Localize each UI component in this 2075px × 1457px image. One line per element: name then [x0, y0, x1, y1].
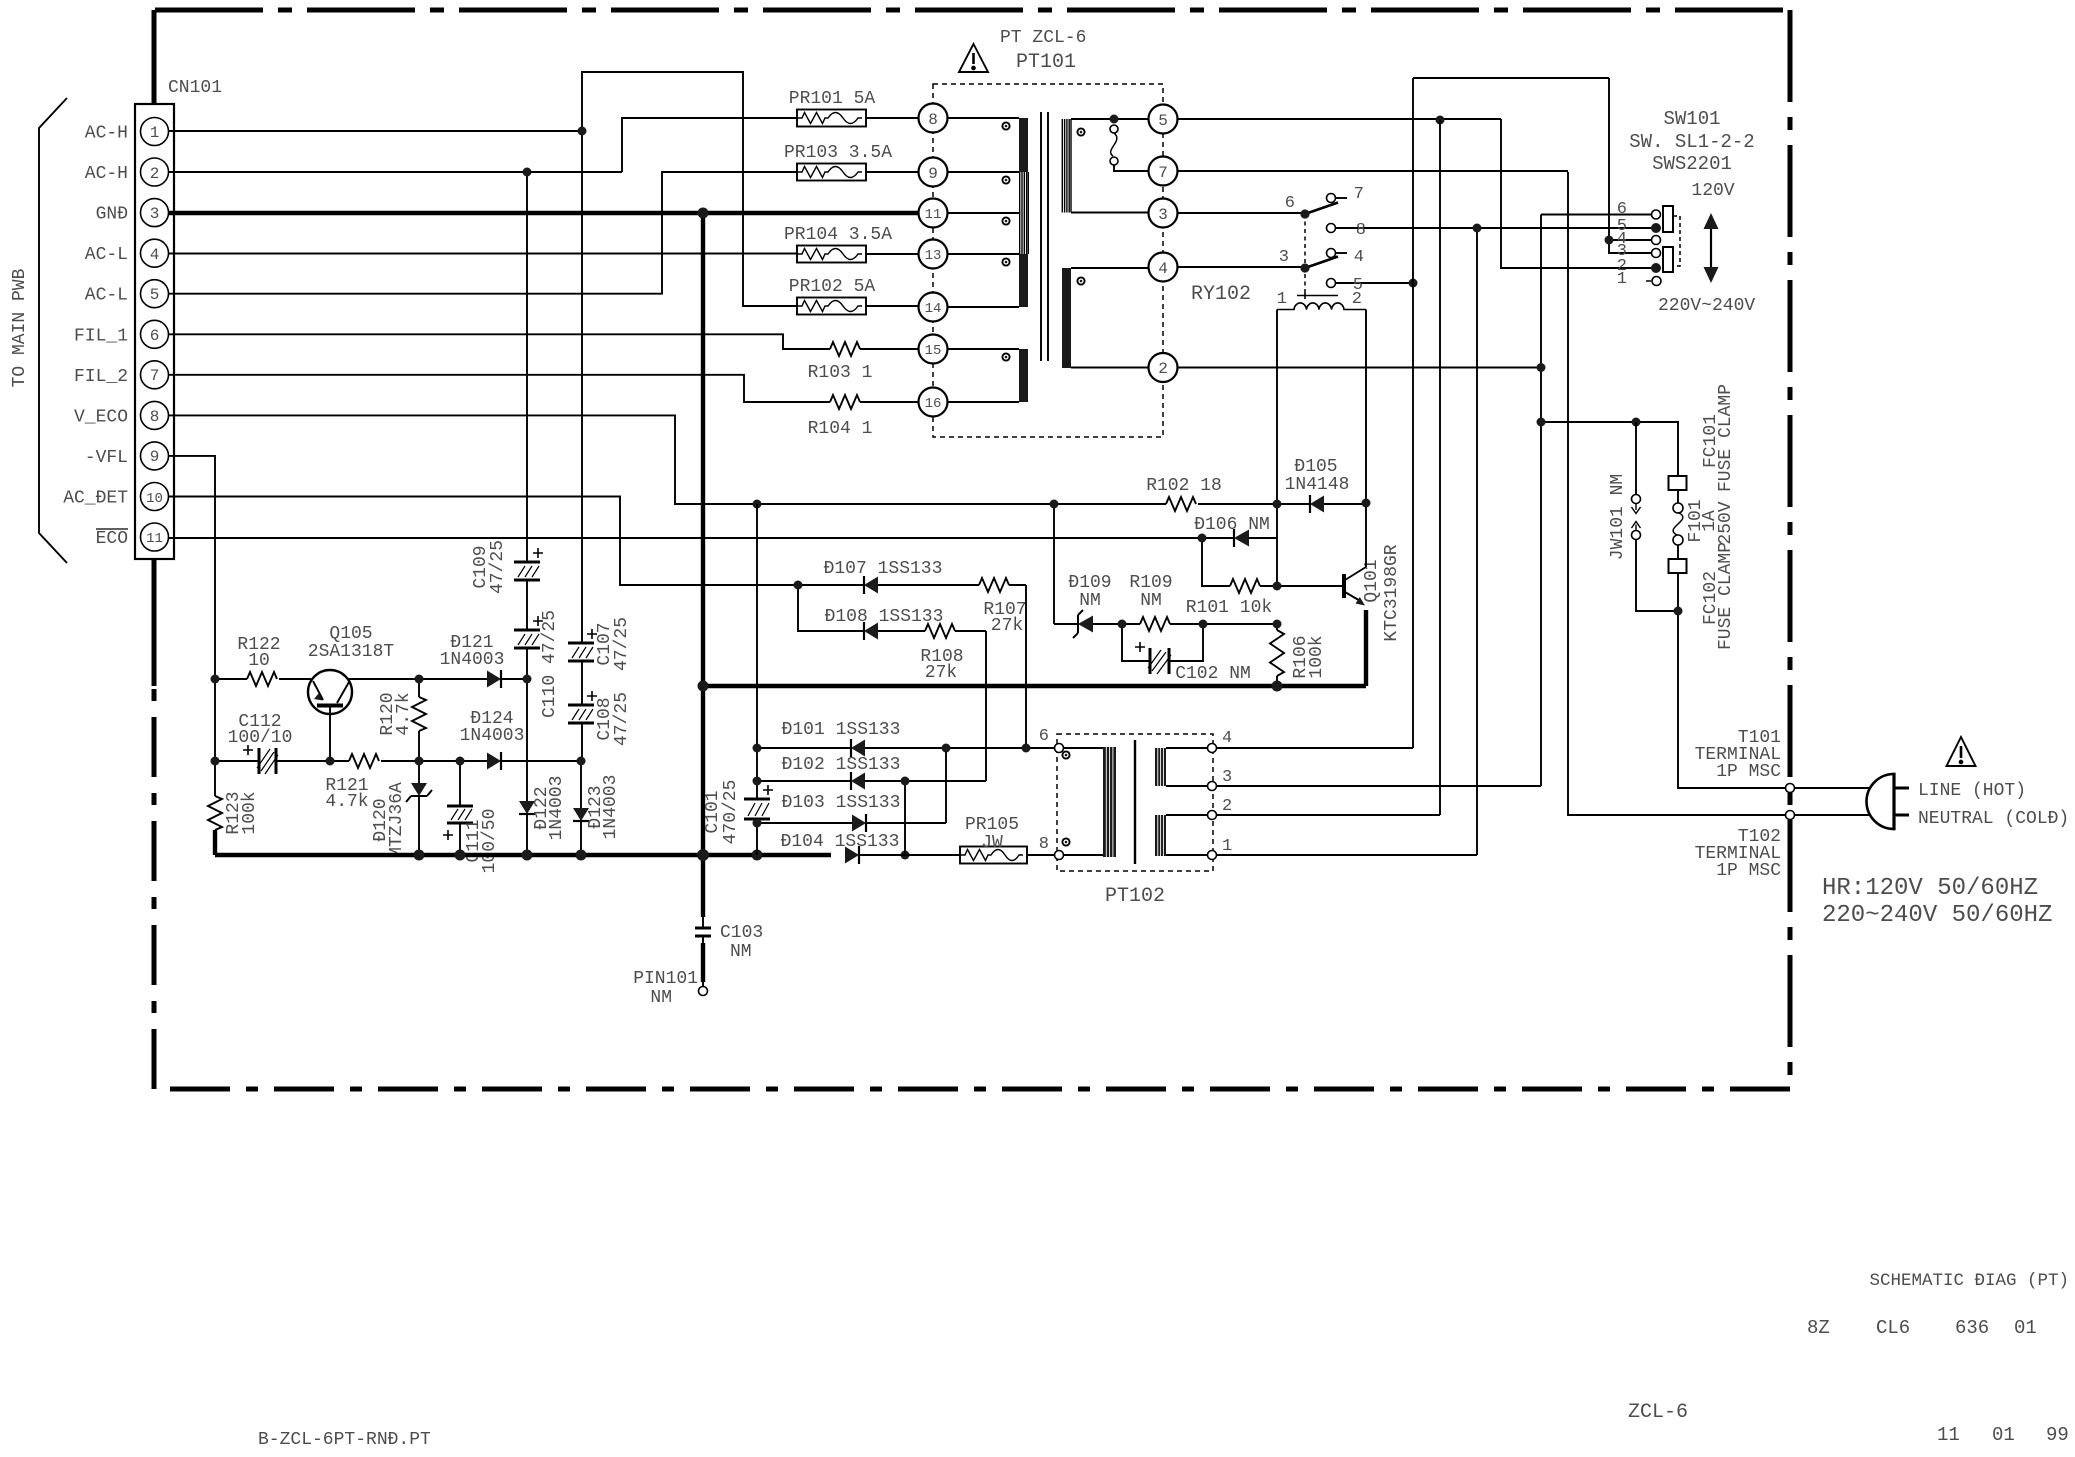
diode D103	[757, 814, 946, 832]
wire D102 to D104 link	[904, 781, 906, 855]
svg-text:PR102 5A: PR102 5A	[789, 277, 876, 297]
svg-text:6: 6	[1285, 194, 1295, 213]
svg-text:5: 5	[150, 286, 160, 304]
transformer PT102 core	[1134, 740, 1136, 864]
wire D101 to D103 link	[945, 748, 947, 823]
svg-text:R109: R109	[1129, 573, 1172, 593]
svg-text:5: 5	[1158, 112, 1168, 130]
transformer PT101 pin 4	[1149, 253, 1178, 282]
wire relay coil right to D105 cathode node	[1365, 310, 1367, 504]
svg-text:47/25: 47/25	[612, 617, 632, 671]
svg-text:9: 9	[928, 165, 938, 183]
transformer PT101 secondary winding upper hatched	[1062, 119, 1148, 213]
svg-text:FIL_2: FIL_2	[74, 367, 128, 387]
junction dot F101 bottom	[1674, 607, 1683, 616]
connector CN101 pin 1	[141, 118, 169, 146]
switch SW101 pin 2	[1651, 263, 1661, 273]
svg-text:7: 7	[1354, 185, 1364, 204]
fuse clamp FC101	[1669, 476, 1687, 490]
connector CN101 pin 7	[141, 361, 169, 389]
svg-text:Đ107 1SS133: Đ107 1SS133	[824, 559, 943, 579]
svg-text:7: 7	[150, 367, 160, 385]
svg-text:2: 2	[150, 165, 160, 183]
transformer PT102 pin 2	[1208, 797, 1441, 820]
junction dots SW net	[1473, 224, 1614, 373]
connector CN101 pin 6	[141, 320, 169, 348]
wire Q101 base	[1277, 585, 1343, 587]
svg-text:CL6: CL6	[1876, 1317, 1910, 1339]
warning triangle plug	[1947, 737, 1976, 766]
relay RY102 contact 5 wire	[1327, 279, 1414, 288]
switch SW101 contact block 1	[1663, 206, 1673, 232]
svg-text:NM: NM	[650, 988, 672, 1008]
transformer PT102 dashed box	[1057, 734, 1213, 871]
transformer PT102 pin 6	[1039, 727, 1064, 753]
transformer PT102 primary wires	[1064, 748, 1104, 855]
svg-text:7: 7	[1158, 164, 1168, 182]
resistor R103	[830, 342, 860, 356]
svg-text:JW101 NM: JW101 NM	[1608, 474, 1628, 560]
svg-text:3: 3	[1279, 248, 1289, 267]
transformer PT101 secondary winding lower	[1062, 268, 1149, 368]
svg-text:1N4003: 1N4003	[601, 775, 621, 840]
junction dots diode matrix	[753, 744, 1031, 828]
wire T102 to plug	[1795, 814, 1871, 816]
resistor R104	[830, 395, 860, 409]
svg-text:11: 11	[925, 207, 942, 223]
svg-text:6: 6	[150, 327, 160, 345]
svg-text:C110 47/25: C110 47/25	[540, 610, 560, 718]
transformer PT102 secondary winding upper	[1155, 748, 1208, 786]
svg-text:15: 15	[925, 343, 942, 359]
switch SW101 selector arrow	[1704, 213, 1719, 283]
svg-text:220~240V 50/60HZ: 220~240V 50/60HZ	[1822, 902, 2052, 929]
border frame bottom	[155, 1087, 1790, 1092]
diode D105	[1277, 495, 1366, 513]
capacitor C110	[514, 616, 543, 648]
svg-text:LINE (HOT): LINE (HOT)	[1918, 781, 2026, 801]
svg-text:Đ105: Đ105	[1294, 457, 1337, 477]
svg-text:PIN101: PIN101	[633, 969, 698, 989]
capacitor C108	[568, 691, 597, 723]
svg-text:AC-H: AC-H	[85, 164, 128, 184]
svg-text:NM: NM	[1079, 591, 1101, 611]
svg-text:AC-L: AC-L	[85, 286, 128, 306]
junction dots mid area	[698, 499, 1371, 692]
transformer PT102 pin 4	[1208, 729, 1414, 753]
transformer PT101 pin 15	[919, 335, 948, 364]
svg-text:Đ109: Đ109	[1068, 573, 1111, 593]
relay RY102 pole 2 arm	[1305, 257, 1338, 269]
wire D121 node down to D122	[526, 679, 528, 801]
svg-text:AC-L: AC-L	[85, 245, 128, 265]
diode D108	[798, 585, 925, 640]
svg-text:C101: C101	[703, 790, 723, 833]
transformer PT102 primary winding bars	[1103, 747, 1116, 857]
transformer PT102 pin 8	[1039, 835, 1064, 860]
wire PT101 pin5 to SW101 pin2	[1178, 119, 1652, 268]
junction dot D107 node	[794, 581, 803, 590]
svg-text:100/10: 100/10	[228, 728, 293, 748]
junction dots fuse line	[1537, 418, 1641, 427]
relay RY102 contact 7	[1327, 194, 1348, 203]
svg-text:100/50: 100/50	[480, 809, 500, 874]
svg-text:100k: 100k	[1307, 635, 1327, 678]
connector CN101 pin 8	[141, 401, 169, 429]
capacitor C103	[695, 917, 711, 987]
wire GND pin3 thick to PT101 pin11	[168, 211, 919, 215]
svg-text:PR104 3.5A: PR104 3.5A	[784, 225, 892, 245]
diode D101	[757, 739, 1054, 757]
transformer PT101 pin 8	[919, 104, 948, 133]
transistor Q101	[1344, 567, 1366, 606]
fusible resistor PR104	[797, 246, 919, 263]
wire C107 to C108	[581, 661, 583, 705]
transformer PT101 pin 9	[919, 158, 948, 187]
svg-text:1P MSC: 1P MSC	[1716, 762, 1781, 782]
wire PT101 pin2 to net SW6	[1178, 367, 1542, 369]
fusible resistor PR105	[960, 847, 1054, 864]
switch SW101 pin 1	[1646, 277, 1661, 286]
svg-text:10: 10	[248, 651, 270, 671]
switch SW101 slider dashed link	[1673, 216, 1680, 266]
svg-text:10: 10	[146, 491, 163, 507]
jumper JW101	[1632, 422, 1679, 611]
diode D107	[798, 576, 979, 594]
svg-text:AC_ĐET: AC_ĐET	[63, 489, 128, 509]
wire V_ECO pin8 to R102	[168, 415, 1277, 504]
svg-text:HR:120V 50/60HZ: HR:120V 50/60HZ	[1822, 875, 2038, 902]
capacitor C109	[514, 548, 543, 580]
diode D124	[419, 752, 581, 770]
wire FIL_2 pin7 to R104	[168, 375, 919, 402]
svg-text:PT ZCL-6: PT ZCL-6	[1000, 28, 1086, 48]
svg-text:2: 2	[1158, 360, 1168, 378]
connector CN101 pin 9	[141, 442, 169, 470]
wire AC_DET pin10 to D107 D108 node	[168, 497, 798, 586]
transformer PT102 pin 3	[1208, 768, 1542, 791]
wire V_ECO branch down C101 column	[756, 504, 758, 799]
svg-text:8: 8	[1039, 835, 1049, 854]
resistor R102	[1166, 497, 1196, 511]
wire T101 to plug	[1795, 787, 1871, 789]
wire ECO net vertical x1277	[1276, 504, 1278, 586]
svg-text:220V~240V: 220V~240V	[1658, 296, 1755, 316]
wire R107 to D101 row	[1025, 585, 1027, 748]
svg-text:R102 18: R102 18	[1146, 476, 1222, 496]
svg-text:11: 11	[1937, 1424, 1960, 1446]
svg-text:2: 2	[1222, 797, 1232, 816]
svg-text:8: 8	[928, 111, 938, 129]
wire C108 to D123	[581, 723, 582, 808]
svg-text:SW101: SW101	[1663, 108, 1720, 130]
wire fuse line from SW6 net	[1541, 422, 1678, 476]
svg-text:NM: NM	[730, 942, 752, 962]
transformer PT101 pin 5	[1149, 105, 1178, 134]
switch SW101 pin 5	[1651, 223, 1661, 233]
capacitor C102	[1122, 624, 1203, 674]
svg-text:Q105: Q105	[329, 624, 372, 644]
wire thick ground bus y855	[215, 853, 831, 857]
svg-text:16: 16	[925, 396, 942, 412]
svg-text:4: 4	[1158, 260, 1168, 278]
svg-text:100k: 100k	[240, 791, 260, 834]
svg-text:SW. SL1-2-2: SW. SL1-2-2	[1629, 131, 1754, 153]
junction dots left area	[523, 127, 709, 219]
svg-text:V_ECO: V_ECO	[74, 407, 128, 427]
relay RY102 contact 4	[1327, 249, 1348, 258]
capacitor C112	[215, 745, 330, 774]
wire AC-H pin2 to PR101 detour	[168, 118, 797, 172]
svg-text:4: 4	[1354, 248, 1364, 267]
svg-text:KTC3198GR: KTC3198GR	[1382, 544, 1402, 641]
svg-text:PR101 5A: PR101 5A	[789, 89, 876, 109]
fusible resistor PR103	[797, 164, 919, 181]
wire net x1440 vertical PT102 pin2	[1439, 120, 1441, 815]
wire net x1413 vertical PT102 pin4	[1412, 78, 1414, 748]
svg-text:6: 6	[1039, 727, 1049, 746]
border frame right	[1788, 10, 1793, 1089]
svg-text:8: 8	[150, 408, 160, 426]
diode D104	[845, 846, 960, 864]
svg-text:120V: 120V	[1691, 181, 1734, 201]
svg-text:1N4148: 1N4148	[1285, 475, 1350, 495]
relay RY102 pole 1 arm	[1305, 203, 1338, 215]
border frame left	[152, 10, 157, 1089]
pin PIN101	[699, 987, 708, 996]
resistor R108	[925, 624, 986, 638]
svg-text:1N4003: 1N4003	[440, 650, 505, 670]
wire Q101 emitter thick to bus	[1364, 610, 1368, 686]
wire AC-L pin4 to PR104	[168, 253, 797, 255]
wire GND trunk vertical thick	[701, 213, 705, 917]
svg-text:14: 14	[925, 301, 942, 317]
fusible resistor PR102	[797, 298, 919, 315]
svg-text:RY102: RY102	[1191, 283, 1251, 306]
svg-text:NM: NM	[1140, 591, 1162, 611]
junction dots Q105 area	[211, 675, 586, 766]
wire thick bus y686	[703, 684, 1366, 688]
svg-text:3: 3	[1222, 768, 1232, 787]
svg-text:ZCL-6: ZCL-6	[1628, 1401, 1688, 1424]
transformer PT101 core	[1041, 112, 1048, 361]
svg-text:ECO: ECO	[96, 529, 128, 549]
resistor R123	[208, 763, 222, 855]
svg-text:GNĐ: GNĐ	[96, 205, 128, 225]
svg-text:27k: 27k	[991, 616, 1023, 636]
svg-text:1N4003: 1N4003	[547, 776, 567, 841]
svg-text:SCHEMATIC ĐIAG (PT): SCHEMATIC ĐIAG (PT)	[1869, 1271, 2069, 1291]
AC plug	[1867, 773, 1910, 831]
fusible resistor PR101	[797, 110, 919, 127]
wire FIL_1 pin6 to R103	[168, 334, 919, 349]
wire net x1541 SW6 to PT102 pin3	[1541, 215, 1651, 787]
terminal T102	[1786, 811, 1795, 820]
svg-text:C102 NM: C102 NM	[1175, 664, 1251, 684]
svg-text:NEUTRAL (COLĐ): NEUTRAL (COLĐ)	[1918, 809, 2069, 829]
transformer PT101 primary winding bars	[1019, 118, 1028, 402]
svg-text:PR105: PR105	[965, 815, 1019, 835]
transformer PT101 pin 3	[1149, 199, 1178, 228]
svg-text:2SA1318T: 2SA1318T	[308, 642, 395, 662]
switch SW101 pin 4	[1613, 236, 1661, 245]
resistor R101	[1202, 538, 1277, 593]
transistor Q105	[308, 670, 419, 761]
connector CN101 pin 11	[141, 523, 169, 551]
svg-text:8: 8	[1356, 221, 1366, 240]
svg-text:JW: JW	[981, 833, 1003, 853]
svg-text:11: 11	[146, 531, 163, 547]
svg-text:AC-H: AC-H	[85, 124, 128, 144]
svg-text:MTZJ36A: MTZJ36A	[387, 782, 407, 858]
svg-text:Đ101 1SS133: Đ101 1SS133	[782, 720, 901, 740]
svg-text:SWS2201: SWS2201	[1652, 153, 1732, 175]
resistor R122	[215, 672, 311, 686]
svg-text:01: 01	[1992, 1424, 2015, 1446]
wire net top route x1413 to SW101	[1413, 78, 1651, 253]
wire Q101 collector to D105 node	[1365, 503, 1367, 567]
zener diode D109	[1054, 610, 1140, 638]
svg-text:8Z: 8Z	[1807, 1317, 1830, 1339]
svg-text:1: 1	[150, 124, 160, 142]
svg-text:PT102: PT102	[1105, 885, 1165, 908]
transformer PT101 pin 11	[919, 199, 948, 228]
svg-text:Q101: Q101	[1362, 559, 1382, 602]
svg-text:FUSE CLAMP: FUSE CLAMP	[1716, 542, 1736, 650]
transformer PT101 pin 14	[919, 293, 948, 322]
resistor R120	[412, 679, 426, 761]
wire R108 to D102 row	[985, 631, 987, 781]
transformer PT101 pin 13	[919, 240, 948, 269]
svg-text:B-ZCL-6PT-RNĐ.PT: B-ZCL-6PT-RNĐ.PT	[258, 1430, 431, 1450]
relay RY102 armature	[1297, 292, 1338, 299]
transformer PT101 pin 2	[1149, 353, 1178, 382]
wire AC_DET branch down to D109 row	[1053, 504, 1055, 624]
svg-text:Đ104 1SS133: Đ104 1SS133	[781, 832, 900, 852]
transformer PT102 pin 1	[1208, 837, 1478, 860]
wire AC-H pin1 to PR102 detour	[168, 72, 797, 306]
wire PT101 pin4 to relay pole2	[1178, 267, 1306, 268]
connector CN101 pin 10	[141, 483, 169, 511]
svg-text:3: 3	[150, 205, 160, 223]
svg-text:1P MSC: 1P MSC	[1716, 861, 1781, 881]
svg-text:PT101: PT101	[1016, 51, 1076, 74]
wire net x1477 vertical PT102 pin1	[1476, 228, 1478, 855]
svg-text:4: 4	[1222, 729, 1232, 748]
svg-text:250V: 250V	[1716, 501, 1736, 544]
svg-text:Đ102 1SS133: Đ102 1SS133	[782, 755, 901, 775]
connector CN101 pin 3	[141, 199, 169, 227]
svg-text:R104 1: R104 1	[808, 419, 873, 439]
svg-text:PR103 3.5A: PR103 3.5A	[784, 143, 892, 163]
bracket TO MAIN PWB	[39, 98, 67, 563]
resistor R107	[979, 578, 1026, 592]
connector CN101 pin 4	[141, 239, 169, 267]
svg-text:99: 99	[2046, 1424, 2069, 1446]
switch SW101 pin 3	[1652, 249, 1661, 258]
polarity marks PT101	[1002, 122, 1084, 360]
relay RY102 coil	[1277, 303, 1366, 310]
resistor R109	[1140, 617, 1277, 631]
wire -VFL pin9 down left column	[168, 456, 215, 763]
capacitor C101	[744, 785, 773, 855]
transformer PT101 primary winding stub wires	[948, 118, 1020, 402]
switch SW101 contact block 2	[1663, 247, 1673, 272]
resistor R121	[330, 754, 419, 768]
svg-text:13: 13	[925, 248, 942, 264]
svg-text:47/25: 47/25	[612, 692, 632, 746]
svg-text:CN101: CN101	[168, 78, 222, 98]
svg-text:Đ106 NM: Đ106 NM	[1194, 515, 1270, 535]
svg-text:1: 1	[1617, 270, 1627, 289]
svg-text:636: 636	[1955, 1317, 1989, 1339]
relay RY102 contact 8 wire to SW101 pin5	[1327, 224, 1652, 233]
svg-text:FIL_1: FIL_1	[74, 326, 128, 346]
diode D102	[757, 772, 986, 790]
terminal T101	[1786, 784, 1795, 793]
svg-text:3: 3	[1158, 206, 1168, 224]
svg-text:Đ108 1SS133: Đ108 1SS133	[825, 607, 944, 627]
diode D121	[419, 670, 527, 688]
relay RY102 linkage dashed	[1304, 214, 1306, 292]
border frame top	[155, 8, 1790, 13]
transformer PT101 pin 16	[919, 388, 948, 417]
svg-text:2: 2	[1352, 290, 1362, 309]
svg-text:9: 9	[150, 448, 160, 466]
wire C110 to D121 node	[526, 648, 528, 679]
svg-text:4.7k: 4.7k	[394, 692, 414, 735]
svg-text:1: 1	[1277, 290, 1287, 309]
connector CN101 pin 2	[141, 158, 169, 186]
switch SW101 pin 6	[1652, 210, 1661, 219]
border frame left solid segments near CN101	[152, 10, 157, 686]
fuse clamp FC102	[1669, 559, 1687, 573]
svg-text:47/25: 47/25	[488, 540, 508, 594]
diode D123	[573, 808, 589, 855]
warning triangle PT101	[959, 44, 988, 72]
svg-text:C103: C103	[720, 923, 763, 943]
junction dots relay	[1300, 116, 1444, 288]
svg-text:FUSE CLAMP: FUSE CLAMP	[1716, 384, 1736, 492]
capacitor C107	[568, 629, 597, 661]
wire PT101 pin7 to T102	[1178, 171, 1786, 815]
fuse F101	[1673, 490, 1683, 559]
wire relay coil left to R102 node	[1276, 310, 1278, 505]
svg-text:1N4003: 1N4003	[460, 726, 525, 746]
wire C109 to C110	[526, 580, 528, 630]
connector CN101 body	[135, 104, 174, 559]
resistor R106	[1270, 624, 1284, 686]
transformer PT101 pin 7	[1149, 157, 1178, 186]
diode D122	[519, 801, 535, 855]
junction dots ground bus	[414, 849, 910, 861]
transformer PT102 secondary winding lower	[1155, 815, 1208, 856]
diode D106	[1234, 529, 1277, 547]
svg-text:4.7k: 4.7k	[325, 792, 368, 812]
wire ECO pin11 to D106	[168, 537, 1234, 539]
polarity marks PT102	[1062, 751, 1069, 845]
svg-text:R103 1: R103 1	[808, 363, 873, 383]
transformer PT101 dashed box	[933, 84, 1163, 437]
svg-text:TO MAIN PWB: TO MAIN PWB	[10, 268, 30, 387]
transformer PT101 tap to pin 7	[1110, 125, 1149, 171]
svg-text:Đ103 1SS133: Đ103 1SS133	[782, 793, 901, 813]
wire AC-H pin2 branch down to C109 column	[526, 172, 528, 562]
connector CN101 pin 5	[141, 280, 169, 308]
zener diode D120	[406, 761, 432, 855]
capacitor C111	[443, 761, 473, 855]
svg-text:470/25: 470/25	[721, 780, 741, 845]
